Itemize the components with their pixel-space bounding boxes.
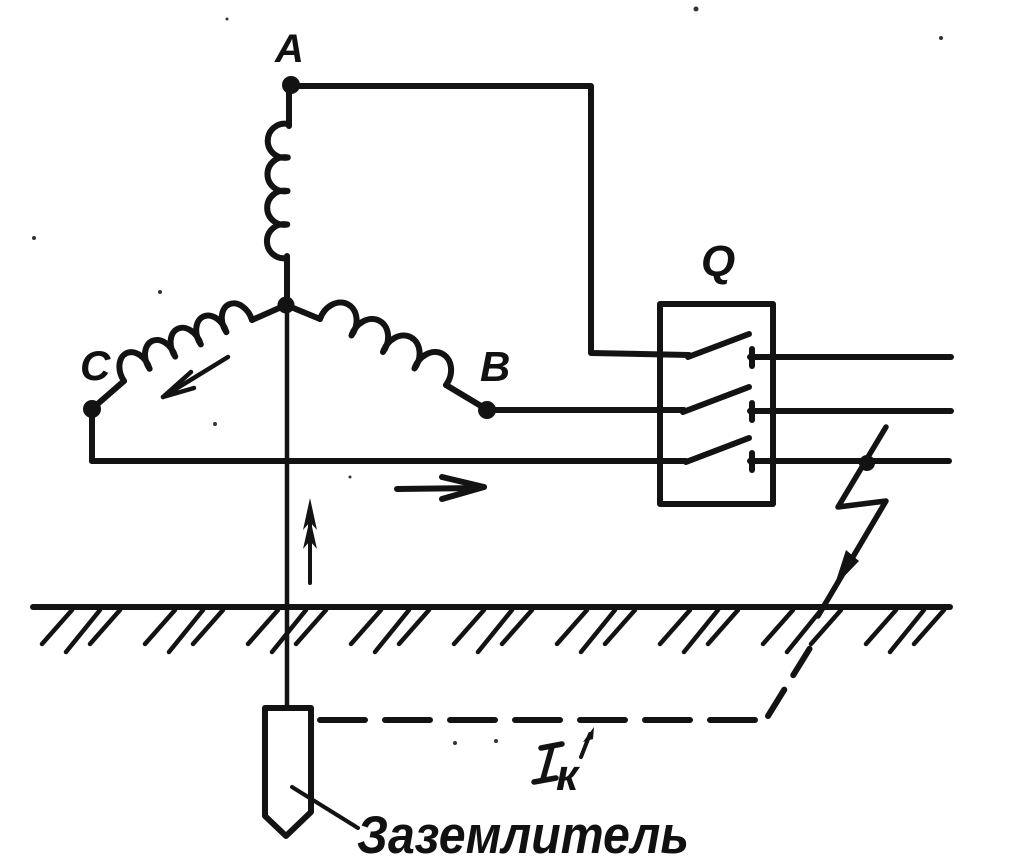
winding A (phase A coil) xyxy=(267,124,288,259)
node A xyxy=(282,76,300,94)
paper speckles xyxy=(32,7,943,746)
switch Q pole 2 fixed contact tick xyxy=(749,403,755,420)
wire star point to winding B xyxy=(286,305,320,319)
switch Q pole 3 blade xyxy=(686,438,749,462)
wire winding A to star point xyxy=(284,256,290,305)
wire winding C to node C xyxy=(93,381,124,408)
grounding electrode xyxy=(265,708,311,836)
switch Q pole 2 blade xyxy=(683,387,749,412)
winding C (phase C coil) xyxy=(119,303,252,381)
wire node B to switch Q pole 2 xyxy=(487,407,684,413)
node B xyxy=(478,401,496,419)
switch Q pole 1 blade xyxy=(688,334,749,357)
svg-text:C: C xyxy=(80,342,111,389)
winding B (phase B coil) xyxy=(320,302,451,385)
star point node xyxy=(278,297,295,314)
wire node A to winding A xyxy=(286,85,292,126)
wire star point to grounding electrode xyxy=(285,305,290,708)
short-circuit fault (lightning bolt) on line L3 xyxy=(818,427,886,616)
earth surface line xyxy=(33,604,950,610)
small arrow above Iк xyxy=(581,727,594,757)
svg-text:Q: Q xyxy=(701,237,735,286)
leader line to label xyxy=(292,787,358,828)
current arrow on winding C xyxy=(163,357,228,397)
wire C to switch Q pole 3 (long horizontal) xyxy=(92,458,686,464)
svg-text:A: A xyxy=(274,27,304,71)
fault current dashed return path xyxy=(320,717,764,723)
wire from node A to switch Q pole 1 xyxy=(291,86,689,355)
label Iк (fault current) xyxy=(534,744,581,800)
switch Q enclosure box xyxy=(660,304,773,504)
node C xyxy=(83,400,101,418)
wire pole 3 to line L3 xyxy=(750,458,949,464)
wire node C down xyxy=(89,409,95,461)
current arrow right along wire C-Q xyxy=(397,477,484,499)
wire winding B to node B xyxy=(446,385,486,409)
switch Q pole 3 fixed contact tick xyxy=(749,453,755,470)
svg-text:B: B xyxy=(480,343,510,390)
wire pole 2 to line L2 xyxy=(750,408,951,414)
fault current dashed path, diagonal riser xyxy=(768,648,810,716)
current arrow up along ground wire xyxy=(303,498,317,583)
earth hatching xyxy=(42,610,944,652)
svg-text:Заземлитель: Заземлитель xyxy=(357,806,689,865)
wire pole 1 to line L1 xyxy=(750,354,951,360)
switch Q pole 1 fixed contact tick xyxy=(749,349,755,366)
wire star point to winding C xyxy=(252,305,286,320)
svg-text:к: к xyxy=(556,751,581,800)
